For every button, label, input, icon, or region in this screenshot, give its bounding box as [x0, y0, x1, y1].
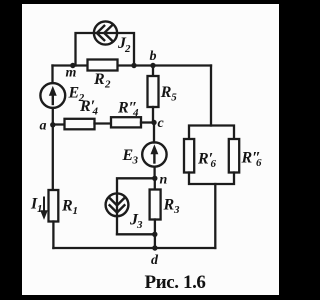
- wire R6 section down to d row: [214, 184, 216, 248]
- label I1: [30, 196, 43, 216]
- wire R6 bottom bar: [189, 173, 234, 185]
- svg-text:E: E: [68, 85, 80, 102]
- wire bottom row d: [53, 247, 215, 249]
- resistor R'4: [65, 119, 95, 130]
- wire R''4 to node c: [141, 121, 154, 123]
- voltage source E3: [142, 142, 166, 166]
- junction J2 right: [131, 63, 136, 68]
- node m: [70, 63, 75, 68]
- svg-text:Рис. 1.6: Рис. 1.6: [145, 272, 206, 293]
- svg-text:6: 6: [256, 157, 262, 169]
- resistor R''4: [111, 117, 141, 127]
- svg-text:3: 3: [132, 155, 139, 167]
- wire top row m-b: [53, 64, 212, 66]
- resistor R3: [150, 190, 161, 220]
- wire c to E3: [153, 123, 155, 143]
- current arrow I1: [41, 198, 47, 219]
- wire a row left: [53, 123, 65, 125]
- wire J3 bottom branch: [117, 233, 155, 235]
- label m: [66, 66, 77, 81]
- label c: [158, 116, 165, 131]
- svg-text:2: 2: [124, 43, 131, 55]
- current source J2: [94, 21, 117, 44]
- wire E3 to node n: [153, 167, 155, 179]
- wire E2 to node a: [52, 108, 54, 125]
- label n: [160, 173, 168, 188]
- wire R1 to bottom corner: [52, 222, 54, 249]
- node b: [150, 63, 155, 68]
- wire left rail top: [51, 66, 53, 84]
- wire n to J3 branch top: [117, 178, 155, 234]
- svg-text:R: R: [160, 84, 172, 101]
- label R5: [160, 84, 178, 104]
- label R3: [163, 197, 181, 217]
- wire R5 to node c: [152, 107, 154, 123]
- svg-text:3: 3: [173, 204, 180, 216]
- label R'4: [79, 98, 99, 118]
- svg-text:3: 3: [136, 219, 143, 231]
- wire R6 top bar: [189, 126, 234, 140]
- svg-text:R: R: [163, 197, 175, 214]
- node a: [50, 122, 55, 127]
- node d: [152, 245, 157, 250]
- wire J2 left lead: [76, 33, 135, 66]
- svg-text:2: 2: [104, 79, 111, 91]
- svg-text:n: n: [160, 173, 168, 188]
- svg-text:5: 5: [171, 92, 177, 104]
- wire left rail a to R1: [52, 125, 54, 190]
- svg-text:c: c: [158, 116, 165, 131]
- resistor R5: [148, 76, 159, 107]
- svg-text:E: E: [122, 147, 134, 164]
- node n: [152, 176, 157, 181]
- label E2: [68, 85, 85, 105]
- label R2: [93, 71, 111, 91]
- svg-text:1: 1: [37, 203, 43, 215]
- label R1: [61, 198, 78, 218]
- svg-text:6: 6: [211, 158, 217, 170]
- svg-text:b: b: [150, 49, 157, 64]
- resistor R'6: [184, 139, 194, 173]
- voltage source E2: [40, 83, 65, 108]
- svg-text:m: m: [66, 66, 77, 81]
- svg-text:R: R: [93, 71, 105, 88]
- resistor R''6: [229, 139, 239, 173]
- svg-text:a: a: [40, 119, 47, 134]
- current source J3: [106, 193, 129, 216]
- svg-text:4: 4: [132, 107, 139, 119]
- label d: [151, 253, 159, 268]
- label R''4: [117, 100, 139, 120]
- label R'6: [197, 151, 217, 171]
- label b: [150, 49, 157, 64]
- svg-text:R: R: [61, 198, 73, 215]
- wire b to R5: [152, 66, 154, 77]
- label a: [40, 119, 47, 134]
- junction J3 bottom: [152, 232, 157, 237]
- label J3: [129, 212, 143, 232]
- label J2: [117, 35, 131, 55]
- label E3: [122, 147, 139, 167]
- resistor R1: [49, 190, 59, 222]
- caption Рис. 1.6: [145, 272, 206, 293]
- wire between R'4 and R''4: [95, 122, 112, 124]
- node c: [151, 120, 156, 125]
- svg-text:d: d: [151, 253, 159, 268]
- wire R3 to node d: [154, 220, 156, 249]
- wire n to R3: [154, 178, 156, 189]
- label R''6: [241, 150, 263, 170]
- svg-text:1: 1: [73, 205, 79, 217]
- svg-text:4: 4: [92, 106, 99, 118]
- resistor R2: [88, 60, 118, 71]
- wire top row corner to R6 section: [210, 66, 212, 126]
